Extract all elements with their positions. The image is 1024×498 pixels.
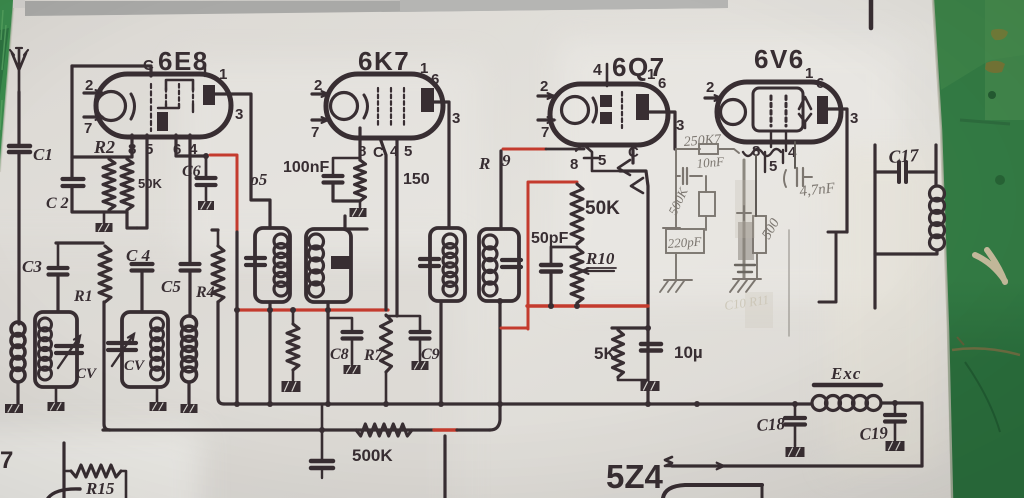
wire C5 to coil: [188, 271, 191, 316]
wire C4 to tank: [140, 271, 143, 312]
tank2 CV arrow: [112, 334, 134, 366]
capacitor 10u: [641, 344, 661, 351]
6V6 anode rect: [817, 96, 828, 124]
wire bl vert: [62, 443, 65, 498]
label Exc: [830, 364, 861, 383]
pencil mid smudge: [735, 160, 755, 278]
tank box 1: [35, 312, 77, 387]
wire 50K to C4 jog: [127, 212, 137, 228]
6Q7 anode rect: [636, 94, 649, 120]
label 5 6Q7: [598, 152, 606, 169]
R15 right wire: [121, 471, 126, 498]
pencil label 10nF: [696, 154, 726, 171]
bottom rail y430: [103, 406, 500, 433]
tube 6K7: [326, 74, 443, 138]
label C6: [182, 163, 201, 180]
5Z4 tube arc: [663, 485, 762, 498]
label 8 6V6: [752, 143, 760, 160]
label CV 2: [124, 358, 146, 374]
red 50K top wire: [501, 182, 577, 329]
label C4: [126, 246, 150, 265]
IF1 primary box: [255, 228, 290, 302]
pencil 10nF cap: [676, 168, 702, 184]
IF2 primary cap: [420, 259, 439, 266]
capacitor C17: [899, 162, 906, 182]
resistor R2: [103, 159, 115, 210]
6Q7 pin3 wire: [649, 112, 675, 149]
6Q7 diode out wire: [620, 150, 648, 404]
6K7 pin2 stub: [312, 91, 328, 97]
label 3 6V6: [850, 110, 858, 127]
pencil 4.7nF: [784, 168, 812, 187]
label 7 6E8: [84, 120, 92, 137]
label 500K: [352, 446, 393, 465]
6K7 pin3 wire: [434, 102, 449, 227]
resistor 5K: [612, 328, 624, 377]
6K7 grid dashed 2: [390, 88, 392, 126]
C17 bottom wire: [875, 250, 937, 254]
wire 237 down: [235, 232, 238, 404]
R9 vertical wire: [499, 151, 502, 229]
pencil 500K res: [699, 176, 715, 230]
label C pin 6E8: [143, 57, 154, 74]
label 50pF: [531, 230, 569, 247]
ground ant coil: [5, 404, 23, 413]
top edge wire right: [869, 0, 874, 28]
label R5: [249, 170, 268, 189]
IF1 sec coil: [309, 234, 324, 297]
100nF bottom wire: [333, 183, 360, 201]
C17 top wire: [875, 170, 936, 173]
label C 6K7: [373, 144, 384, 161]
label R15: [85, 479, 115, 498]
6K7 pin8 wire: [358, 128, 361, 160]
label C19: [859, 423, 889, 444]
capacitor C3: [49, 243, 68, 275]
wire R4 top jog: [212, 228, 218, 231]
gray band at top edge: [13, 0, 728, 16]
pencil mid gnd: [730, 279, 761, 292]
pencil label 500K: [665, 184, 691, 217]
capacitor C2: [63, 179, 84, 186]
pencil 220pF box: [663, 228, 704, 253]
6V6 pin8 wire down: [755, 155, 757, 216]
label 16 6K7: [420, 60, 439, 88]
6K7 pin4 wire: [395, 138, 398, 316]
6E8 inner top bracket: [166, 80, 193, 90]
tank2 CV cap: [108, 343, 136, 350]
label 50K AF: [585, 198, 620, 219]
rail dots: [234, 401, 700, 407]
pencil faint vert: [788, 230, 790, 336]
wire left box vertical: [70, 66, 73, 178]
wire coil to gnd: [187, 382, 190, 404]
pencil ghost text: [723, 180, 773, 328]
label R2: [93, 137, 115, 157]
label 10u: [674, 343, 703, 362]
IF1 sec top wire: [343, 216, 346, 229]
label 2 6E8: [85, 77, 93, 94]
AVC resistor: [287, 310, 299, 380]
6Q7 pin2 stub: [538, 93, 554, 99]
label C3: [22, 257, 42, 276]
6E8 pin5 wire: [137, 135, 147, 228]
ground C19: [886, 422, 905, 451]
label R1: [73, 288, 93, 305]
wire IF1 sec right: [345, 227, 367, 230]
label 3 6E8: [235, 106, 243, 123]
6K7 cathode arc: [364, 95, 368, 118]
IF2 primary box: [430, 228, 465, 301]
label C18: [756, 414, 786, 435]
6Q7 diode plate lower: [600, 112, 612, 124]
6K7 grid dashed 1: [377, 88, 379, 126]
100nF branch: [333, 158, 360, 175]
6E8 inner step wire: [158, 104, 193, 112]
coil L1 left edge: [11, 322, 25, 382]
label 8 6K7: [358, 143, 366, 160]
6E8 grid3 dashed: [178, 84, 180, 104]
6Q7 grid dashed: [621, 92, 623, 128]
C17 right vert: [934, 145, 937, 186]
6K7 pinC wire: [380, 138, 386, 310]
label 3 6K7: [452, 110, 460, 127]
pencil left vert: [675, 149, 677, 229]
label 16 6Q7: [647, 66, 666, 92]
6V6 grid dashed 2: [785, 96, 788, 126]
label C5: [161, 277, 181, 296]
resistor 50K AF: [571, 184, 583, 244]
label C 6Q7: [628, 144, 639, 161]
wire cathode black: [546, 146, 584, 151]
red AF out rail: [527, 303, 648, 309]
resistor R1: [99, 246, 111, 302]
label C2: [46, 195, 69, 212]
6V6 cathode squiggle: [743, 149, 783, 172]
label R9: [478, 151, 511, 173]
pencil label 220pF: [667, 234, 703, 251]
pencil 220pF gnd: [660, 253, 692, 292]
tank1 CV cap: [56, 346, 82, 353]
6E8 hexode anode rect: [203, 85, 215, 105]
label 4 6Q7: [593, 62, 607, 86]
ground coil C5: [181, 404, 198, 413]
6V6 beam arrows: [799, 97, 811, 128]
label 5Z4: [606, 458, 664, 495]
R10 wiper arrow: [582, 268, 614, 274]
label 6E8: [158, 46, 209, 76]
6Q7 pin7 stub: [538, 117, 554, 123]
6E8 cathode circle: [97, 92, 126, 121]
wire rail430 to R1: [0, 0, 1, 1]
6Q7 cathode circle: [562, 97, 589, 124]
label C17: [888, 145, 920, 167]
bl tube arc: [48, 489, 80, 498]
label 8 6Q7: [570, 156, 578, 173]
IF2 sec bottom: [497, 298, 503, 404]
speaker bracket: [819, 232, 847, 302]
C17 left vert: [873, 145, 876, 308]
6E8 pin2 stub: [84, 90, 102, 96]
tank1 gnd: [48, 387, 65, 411]
label 7 bottomleft: [0, 447, 13, 474]
50pF jog wire: [551, 247, 577, 264]
label 6 6E8: [173, 141, 181, 158]
capacitor 100nF: [324, 176, 343, 183]
IF1 primary cap: [246, 258, 265, 265]
wire tankB col: [0, 0, 1, 1]
filter cap: [311, 461, 333, 468]
filter cap stub: [321, 404, 324, 460]
label 4 6V6: [788, 144, 797, 161]
label 3 6Q7: [676, 117, 684, 134]
pencil label 4,7nF: [799, 180, 837, 200]
6K7 cathode resistor: [355, 160, 366, 201]
ground C8: [344, 339, 361, 374]
pencil label 250K7: [683, 132, 722, 150]
label R10: [585, 249, 616, 268]
resistor R7: [381, 315, 392, 404]
IF2 primary coil: [443, 234, 457, 296]
label 4 6E8: [189, 141, 198, 158]
ground rail y404: [224, 402, 812, 405]
IF2 sec box: [479, 229, 519, 301]
ground C9: [412, 339, 429, 370]
label 2 6Q7: [540, 78, 548, 95]
6E8 cathode arc: [131, 94, 135, 119]
wire antenna to C1: [17, 92, 20, 146]
antenna: [10, 48, 28, 92]
R15 left wire: [66, 470, 71, 472]
bottom wire y466: [665, 457, 922, 469]
6V6 pin2 stub: [705, 95, 721, 101]
tube 6V6: [717, 82, 841, 142]
6E8 pin7 stub: [84, 114, 102, 120]
IF1 sec bottom stub: [326, 302, 329, 404]
capacitor C18: [785, 404, 805, 425]
wire R4 to rail: [218, 302, 224, 404]
6K7 cathode circle: [331, 93, 358, 120]
label 50K 6E8: [138, 176, 162, 191]
IF1 sec box: [306, 229, 351, 302]
resistor R15: [71, 465, 121, 477]
capacitor 50pF: [541, 265, 561, 272]
wire cathode to R9 red: [503, 148, 546, 151]
6Q7 diode arrow 1: [618, 160, 630, 175]
label R4: [195, 284, 215, 301]
6V6 inner box: [753, 88, 803, 131]
IF1 primary coil: [274, 234, 288, 296]
wire C3 top: [56, 241, 103, 244]
pencil 250K7 resistor: [676, 144, 739, 154]
label C9: [421, 346, 440, 363]
label 6V6: [754, 44, 805, 74]
wire red plate supply: [210, 155, 237, 232]
6V6 cathode circle: [721, 100, 746, 125]
label 8 6E8: [128, 141, 136, 158]
capacitor C19: [885, 400, 905, 422]
tank2 gnd: [150, 387, 167, 411]
label 100nF: [283, 159, 329, 176]
6E8 grid4 dashed: [192, 88, 194, 104]
label 16 6V6: [805, 65, 824, 92]
6K7 pin7 stub: [312, 117, 328, 123]
choke bar: [814, 383, 881, 388]
6E8 pin3 wire: [215, 94, 270, 228]
capacitor C4: [132, 264, 153, 271]
6K7 anode rect: [421, 88, 434, 112]
tank1 CV arrow: [58, 336, 80, 368]
6V6 pin3 wire: [828, 109, 847, 232]
coil under C5: [182, 316, 197, 382]
6E8 grid2 dashed: [165, 88, 167, 104]
wire C3 to tank1: [56, 275, 59, 312]
6V6 pin4 wire down: [794, 142, 796, 168]
label 1 6E8: [205, 66, 227, 83]
label 6K7: [358, 46, 410, 76]
tank1 coil: [39, 318, 52, 380]
ground R2: [96, 212, 113, 232]
label 5 6V6: [769, 158, 777, 175]
label 2 6V6: [706, 79, 714, 96]
6Q7 cathode bracket: [584, 145, 620, 171]
capacitor C8: [328, 318, 362, 339]
6V6 gnd wire: [756, 253, 758, 278]
50pF bottom wire: [549, 272, 552, 306]
6V6 grid pin wires: [771, 131, 786, 151]
tube 6Q7: [550, 84, 668, 145]
5K bottom wire: [618, 377, 648, 380]
IF1 primary bottom stub: [268, 302, 271, 404]
6V6 grid dashed 1: [770, 96, 773, 126]
capacitor C5: [181, 264, 200, 271]
6E8 triode anode rect: [157, 112, 168, 131]
capacitor C1: [9, 146, 30, 152]
resistor 50K cathode: [121, 159, 133, 210]
6Q7 diode arrow 2: [631, 178, 643, 193]
wire under cap: [321, 468, 323, 478]
AVC resistor gnd: [282, 381, 301, 392]
capacitor C6: [197, 156, 216, 185]
tank2 coil: [151, 318, 164, 380]
red AVC rail: [234, 307, 388, 313]
6Q7 cathode arc: [593, 98, 597, 122]
pencil label 500: [759, 216, 782, 242]
pencil 500 box: [753, 216, 766, 253]
label 2 6K7: [314, 77, 322, 94]
C17 coil: [930, 186, 945, 250]
label C8: [330, 346, 349, 363]
6E8 grid1 dashed: [150, 84, 152, 131]
6E8 pin4 wire: [188, 135, 191, 264]
wire coil to ground: [16, 382, 19, 404]
wire C2 to box bottom: [72, 186, 127, 212]
wire box top: [72, 155, 131, 158]
label 5K: [594, 344, 616, 363]
wire R1 to bottom rail: [104, 302, 110, 430]
6K7 grid dashed 3: [403, 88, 405, 126]
IF2 primary bottom: [439, 301, 442, 404]
IF1 sec cap: [331, 256, 351, 269]
wire grid-cap C line: [72, 66, 151, 76]
wire x105 to rail: [0, 0, 1, 1]
label CV 1: [76, 366, 98, 382]
6Q7 diode plate upper: [600, 95, 612, 107]
tank box 2: [122, 312, 168, 387]
label 6Q7: [612, 52, 666, 82]
wire 10u to rail: [647, 390, 650, 404]
wire stub x444: [443, 436, 446, 498]
capacitor C9: [386, 316, 430, 339]
ground C18: [786, 401, 805, 457]
tube 6E8: [96, 74, 231, 137]
IF2 sec coil: [483, 235, 497, 296]
6E8 pin6 wire: [176, 135, 209, 159]
wire C1 down to coil: [17, 152, 20, 324]
6E8 pin8 wire: [130, 135, 133, 157]
label 150: [403, 171, 430, 188]
label 7 6K7: [311, 124, 319, 141]
label 5 6E8: [145, 141, 153, 158]
6K7 cathode gnd: [350, 201, 367, 217]
5K top wire: [612, 325, 651, 331]
choke Exc coil: [812, 396, 881, 411]
label C1: [33, 145, 53, 164]
resistor R4: [212, 230, 224, 302]
ground C6: [198, 185, 214, 210]
IF2 sec cap: [502, 260, 521, 267]
wire coil to corner: [881, 403, 922, 466]
ground 10u: [641, 381, 660, 391]
label 7 6Q7: [541, 124, 549, 141]
label 4 6K7: [390, 143, 399, 160]
resistor 500K: [356, 424, 412, 436]
label R7: [363, 347, 384, 364]
label 5 6K7: [404, 143, 412, 160]
resistor R10: [571, 248, 583, 303]
